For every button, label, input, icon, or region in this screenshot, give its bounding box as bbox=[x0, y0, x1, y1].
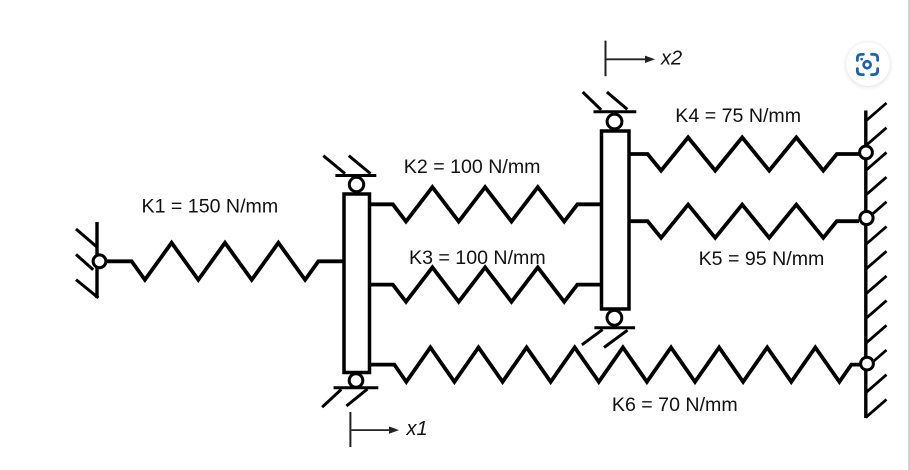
left wall anchor bbox=[76, 222, 98, 298]
label K5 value bbox=[699, 248, 825, 270]
M2 top roller circle bbox=[607, 114, 622, 129]
window edge separator bbox=[908, 0, 910, 470]
label x1 bbox=[406, 418, 428, 440]
M1 bottom roller circle bbox=[349, 374, 363, 388]
visual search lens button bbox=[846, 42, 890, 86]
label K6 value bbox=[612, 394, 738, 416]
svg-text:K6 = 70 N/mm: K6 = 70 N/mm bbox=[612, 394, 738, 416]
spring K2 bbox=[370, 187, 602, 221]
M2 top support bbox=[583, 92, 637, 112]
M2 bottom roller circle bbox=[607, 310, 622, 325]
label K2 value bbox=[404, 156, 541, 178]
svg-text:K4 = 75 N/mm: K4 = 75 N/mm bbox=[675, 105, 801, 127]
svg-text:x2: x2 bbox=[660, 47, 682, 69]
spring K5 bbox=[629, 205, 859, 238]
wall pin circle K4 bbox=[860, 146, 873, 159]
M1 top support bbox=[323, 156, 376, 176]
label K1 value bbox=[142, 195, 279, 217]
spring K6 bbox=[370, 347, 861, 381]
svg-text:K2 = 100 N/mm: K2 = 100 N/mm bbox=[404, 156, 541, 178]
wall pin circle K5 bbox=[860, 211, 873, 224]
svg-text:K3 = 100 N/mm: K3 = 100 N/mm bbox=[409, 247, 546, 269]
right wall bbox=[866, 103, 887, 418]
coordinate axis x2 bbox=[606, 41, 656, 77]
M1 top roller circle bbox=[349, 177, 363, 191]
wall pin circle K6 bbox=[861, 357, 874, 370]
spring K1 bbox=[107, 243, 345, 280]
coordinate axis x1 bbox=[350, 412, 399, 447]
svg-text:K1 = 150 N/mm: K1 = 150 N/mm bbox=[142, 195, 279, 217]
label x2 bbox=[660, 47, 682, 69]
svg-text:K5 = 95 N/mm: K5 = 95 N/mm bbox=[699, 248, 825, 270]
label K4 value bbox=[675, 105, 801, 127]
bar mass M1 bbox=[344, 194, 370, 373]
svg-text:x1: x1 bbox=[406, 418, 428, 440]
M2 bottom support bbox=[582, 328, 635, 348]
spring K3 bbox=[370, 267, 602, 301]
spring K4 bbox=[629, 137, 859, 170]
bar mass M2 bbox=[602, 131, 630, 309]
M1 bottom support bbox=[322, 388, 378, 407]
left anchor pin circle bbox=[93, 255, 106, 268]
label K3 value bbox=[409, 247, 546, 269]
